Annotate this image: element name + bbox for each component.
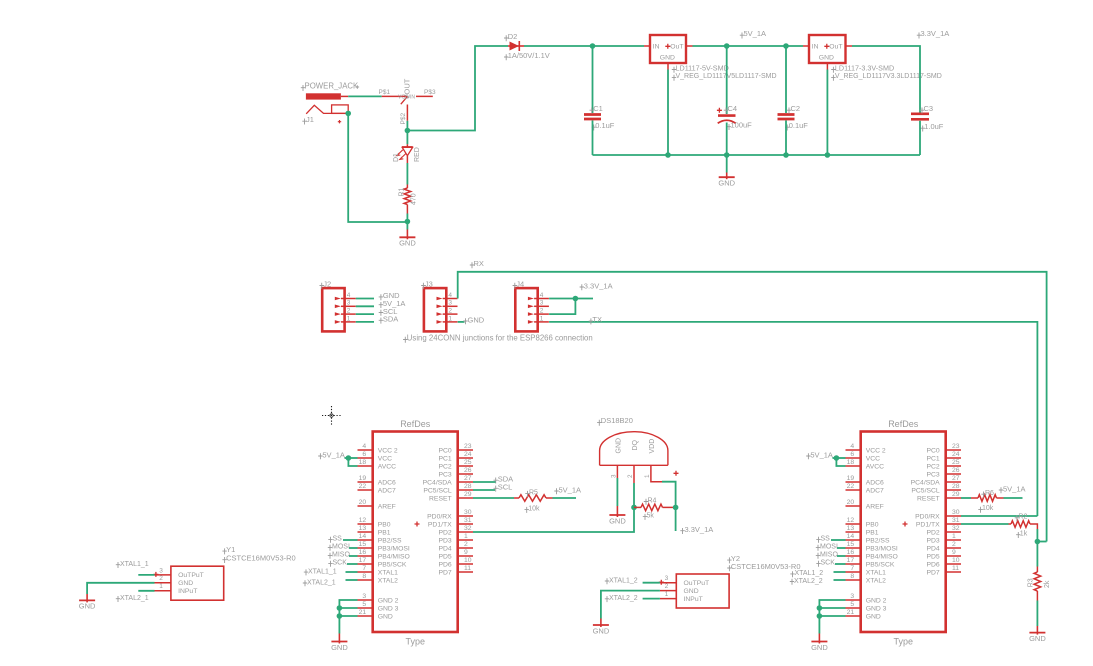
wire RESET to R6 xyxy=(961,497,971,499)
svg-text:2: 2 xyxy=(627,474,634,478)
svg-text:C1: C1 xyxy=(593,104,603,113)
wire 5V to VCC xyxy=(345,457,358,459)
svg-text:GND: GND xyxy=(819,55,834,62)
wire regulator2 OUT to C3 xyxy=(852,46,920,113)
svg-text:8: 8 xyxy=(850,573,854,580)
svg-text:OuTPuT: OuTPuT xyxy=(684,580,710,587)
svg-text:PC0: PC0 xyxy=(926,447,939,454)
svg-text:5: 5 xyxy=(362,601,366,608)
svg-text:PB2/SS: PB2/SS xyxy=(866,537,890,544)
junction 5V node xyxy=(724,43,730,49)
wire rail to ground xyxy=(726,155,728,173)
ground GND below R1 xyxy=(406,230,408,240)
svg-text:R2: R2 xyxy=(1018,514,1027,521)
svg-text:19: 19 xyxy=(359,475,367,482)
svg-text:PB3/MOSI: PB3/MOSI xyxy=(866,545,898,552)
wire J2 pin1 xyxy=(356,321,374,323)
svg-text:31: 31 xyxy=(464,517,472,524)
svg-text:32: 32 xyxy=(952,525,960,532)
svg-text:GND: GND xyxy=(609,516,626,525)
svg-text:MOSI: MOSI xyxy=(332,544,350,551)
svg-text:PD1/TX: PD1/TX xyxy=(916,521,940,528)
net label XTAL1_1 Y1 xyxy=(116,562,120,568)
svg-text:9: 9 xyxy=(952,549,956,556)
wire SCK U1 xyxy=(347,563,358,565)
svg-text:PC0: PC0 xyxy=(438,447,451,454)
capacitor C1 xyxy=(584,113,601,116)
svg-text:PB1: PB1 xyxy=(378,529,391,536)
svg-text:4: 4 xyxy=(362,443,366,450)
svg-text:RefDes: RefDes xyxy=(400,419,431,429)
svg-text:PD5: PD5 xyxy=(438,553,451,560)
wire Y1 pin3 xyxy=(138,574,154,576)
svg-text:INPuT: INPuT xyxy=(684,596,703,603)
svg-text:3.3V_1A: 3.3V_1A xyxy=(584,281,613,290)
svg-text:J2: J2 xyxy=(323,279,331,288)
wire MOSI U2 xyxy=(837,547,846,549)
svg-text:PC1: PC1 xyxy=(438,455,451,462)
svg-text:PD6: PD6 xyxy=(926,561,939,568)
net label SS U1 xyxy=(328,537,332,543)
svg-text:XTAL1_1: XTAL1_1 xyxy=(120,561,149,568)
LED D1 xyxy=(406,144,408,147)
svg-text:PB3/MOSI: PB3/MOSI xyxy=(378,545,410,552)
net label 3.3V_1A J4 xyxy=(580,284,584,290)
wire MISO U2 xyxy=(837,555,846,557)
wire R3 to GND xyxy=(1036,601,1038,627)
jack pin P$1 xyxy=(382,95,408,97)
svg-text:CSTCE16M0V53-R0: CSTCE16M0V53-R0 xyxy=(226,554,296,563)
svg-text:XTAL2_2: XTAL2_2 xyxy=(794,578,823,585)
connector J4 xyxy=(515,288,537,331)
svg-text:LD1117-3.3V-SMD: LD1117-3.3V-SMD xyxy=(835,63,894,72)
svg-text:PB1: PB1 xyxy=(866,529,879,536)
jack pin P$3 xyxy=(416,95,433,97)
svg-text:PC3: PC3 xyxy=(438,471,451,478)
wire to ground xyxy=(406,222,408,230)
svg-text:PD2: PD2 xyxy=(926,529,939,536)
svg-text:15: 15 xyxy=(359,541,367,548)
junction C2 top xyxy=(783,43,789,49)
wire J3 pin1 xyxy=(458,321,465,323)
svg-text:J3: J3 xyxy=(425,279,433,288)
svg-text:5V_1A: 5V_1A xyxy=(810,450,833,459)
svg-text:1: 1 xyxy=(644,474,651,478)
wire MOSI U1 xyxy=(349,547,358,549)
wire Y2 pin3 xyxy=(643,582,660,584)
svg-text:MISO: MISO xyxy=(332,552,350,559)
svg-text:GND: GND xyxy=(866,613,881,620)
svg-text:AVCC: AVCC xyxy=(866,463,884,470)
wire node to R3 xyxy=(1036,542,1038,567)
svg-text:P$1: P$1 xyxy=(379,89,391,96)
svg-text:P$3: P$3 xyxy=(424,89,436,96)
wire C1 bottom xyxy=(592,121,594,156)
svg-text:PD2: PD2 xyxy=(438,529,451,536)
svg-text:GND: GND xyxy=(468,315,485,324)
ground GND U2 xyxy=(818,634,820,644)
net label GND J2.4 xyxy=(379,294,383,300)
svg-text:ADC6: ADC6 xyxy=(866,479,884,486)
svg-text:3: 3 xyxy=(159,567,163,574)
wire PD2 to DS18B20 DQ xyxy=(473,510,634,533)
svg-text:9: 9 xyxy=(464,549,468,556)
svg-text:1k: 1k xyxy=(1020,531,1028,538)
wire J2 pin3 xyxy=(356,305,374,307)
junction J4 3.3V xyxy=(573,296,579,302)
net label MOSI U1 xyxy=(328,545,332,551)
svg-text:D1: D1 xyxy=(393,153,400,162)
svg-text:IN: IN xyxy=(653,44,660,51)
junction U1 GND pin5 xyxy=(337,605,343,611)
svg-text:INPuT: INPuT xyxy=(178,588,197,595)
svg-text:PC2: PC2 xyxy=(926,463,939,470)
wire C4 top xyxy=(726,46,728,114)
svg-text:15: 15 xyxy=(847,541,855,548)
svg-text:3: 3 xyxy=(665,575,669,582)
wire 5V to AVCC U2 xyxy=(836,458,845,466)
net label SCL J2.2 xyxy=(379,310,383,316)
net label SDA U1 xyxy=(494,478,498,484)
svg-text:3: 3 xyxy=(362,593,366,600)
svg-text:GND: GND xyxy=(684,588,699,595)
svg-text:ADC7: ADC7 xyxy=(378,487,396,494)
wire J2 pin2 xyxy=(356,313,374,315)
svg-text:20: 20 xyxy=(359,499,367,506)
svg-text:PC5/SCL: PC5/SCL xyxy=(423,487,452,494)
svg-text:31: 31 xyxy=(952,517,960,524)
svg-text:5V_1A: 5V_1A xyxy=(322,450,345,459)
svg-text:1.0uF: 1.0uF xyxy=(924,122,944,131)
wire SS U1 xyxy=(343,539,358,541)
wire PD0/RX to TX net xyxy=(961,515,1037,517)
net label 5V_1A U2 xyxy=(806,453,810,459)
voltage regulator LD1117-3.3V-SMD xyxy=(803,45,809,47)
net label XTAL2_1 U1 xyxy=(303,580,307,586)
wire junction right xyxy=(575,298,593,300)
svg-text:PD1/TX: PD1/TX xyxy=(428,521,452,528)
svg-text:DQ: DQ xyxy=(632,439,639,450)
svg-text:PD4: PD4 xyxy=(438,545,451,552)
svg-text:R3: R3 xyxy=(1028,578,1035,587)
svg-text:5: 5 xyxy=(850,601,854,608)
svg-text:PD5: PD5 xyxy=(926,553,939,560)
svg-text:13: 13 xyxy=(847,525,855,532)
jack pin P$2 xyxy=(406,105,408,121)
svg-text:SCK: SCK xyxy=(333,560,348,567)
svg-text:25: 25 xyxy=(464,459,472,466)
wire DS18B20 GND pin xyxy=(616,465,618,478)
wire Y1 GND xyxy=(87,583,154,594)
net label 5V_1A R6 xyxy=(999,487,1003,493)
svg-text:PB4/MISO: PB4/MISO xyxy=(378,553,410,560)
net label 5V_1A J2.3 xyxy=(379,302,383,308)
connector J3 xyxy=(424,288,446,331)
wire jack sleeve to GND node xyxy=(348,113,407,222)
svg-text:GND 3: GND 3 xyxy=(378,605,399,612)
wire VDD to 3.3V xyxy=(662,482,676,508)
resistor R1 470 xyxy=(406,185,408,189)
svg-text:LD1117-5V-SMD: LD1117-5V-SMD xyxy=(676,63,729,72)
wire node to regulator IN xyxy=(593,45,645,47)
net label XTAL2_2 U2 xyxy=(790,579,794,585)
ground GND U1 xyxy=(338,634,340,644)
svg-text:4: 4 xyxy=(448,292,452,299)
svg-text:IN: IN xyxy=(812,44,819,51)
net label SCK U1 xyxy=(328,561,332,567)
svg-text:7: 7 xyxy=(362,565,366,572)
svg-text:10k: 10k xyxy=(982,505,994,512)
svg-text:1: 1 xyxy=(464,533,468,540)
svg-text:DS18B20: DS18B20 xyxy=(601,416,633,425)
svg-text:GND: GND xyxy=(593,626,610,635)
svg-text:1: 1 xyxy=(540,315,544,322)
IC U2 microcontroller xyxy=(861,432,946,633)
wire DS18B20 DQ pin xyxy=(633,465,635,483)
ground GND Y2 xyxy=(600,619,602,628)
wire C2 top xyxy=(785,46,787,113)
svg-text:26: 26 xyxy=(952,467,960,474)
jack switch contact xyxy=(401,96,408,104)
svg-text:R4: R4 xyxy=(648,497,657,504)
wire U2 GND pins xyxy=(819,600,845,634)
svg-text:22: 22 xyxy=(359,483,367,490)
svg-text:2: 2 xyxy=(448,308,452,315)
svg-text:17: 17 xyxy=(847,557,855,564)
net label SCL U1 xyxy=(494,486,498,492)
wire SCK U2 xyxy=(835,563,846,565)
svg-text:5V_1A: 5V_1A xyxy=(744,29,767,38)
svg-text:1: 1 xyxy=(159,583,163,590)
svg-text:VCC/IN: VCC/IN xyxy=(398,94,415,100)
svg-text:SDA: SDA xyxy=(383,315,398,324)
svg-text:PD3: PD3 xyxy=(438,537,451,544)
svg-text:23: 23 xyxy=(952,443,960,450)
svg-text:1: 1 xyxy=(952,533,956,540)
wire Y1 pin1 xyxy=(138,590,154,592)
net label GND J3.1 xyxy=(463,318,467,324)
svg-text:3: 3 xyxy=(448,300,452,307)
wire R1 to GND node xyxy=(406,214,408,222)
svg-text:3: 3 xyxy=(611,474,618,478)
wire DS18B20 VDD pin xyxy=(651,465,662,481)
svg-text:VCC: VCC xyxy=(378,455,392,462)
junction 5V U2 xyxy=(834,455,840,461)
junction U1 GND pin21 xyxy=(337,613,343,619)
wire XTAL2 U1 xyxy=(346,579,358,581)
net label XTAL2_2 Y2 xyxy=(605,596,609,602)
svg-text:27: 27 xyxy=(952,475,960,482)
svg-text:30: 30 xyxy=(952,509,960,516)
net label 5V_1A U1 xyxy=(318,453,322,459)
wire 5V to VCC U2 xyxy=(833,457,846,459)
resistor R4 5k xyxy=(634,506,641,508)
resistor R2 1k xyxy=(1009,523,1012,525)
net label SCK U2 xyxy=(816,561,820,567)
crosshair cursor xyxy=(322,406,341,425)
net label SS U2 xyxy=(816,537,820,543)
svg-text:PC2: PC2 xyxy=(438,463,451,470)
wire PD1/TX to R2 xyxy=(961,523,1009,525)
svg-text:3: 3 xyxy=(540,300,544,307)
wire C2 bottom xyxy=(785,121,787,156)
svg-text:GND: GND xyxy=(178,580,193,587)
svg-text:PD0/RX: PD0/RX xyxy=(915,513,940,520)
svg-text:CSTCE16M0V53-R0: CSTCE16M0V53-R0 xyxy=(731,562,801,571)
svg-text:PD7: PD7 xyxy=(438,569,451,576)
junction U2 GND pin21 xyxy=(817,613,823,619)
capacitor C4 100uF xyxy=(718,114,736,117)
svg-text:5V_1A: 5V_1A xyxy=(559,485,582,494)
wire regulator GND to rail xyxy=(667,70,669,156)
net label XTAL1_1 U1 xyxy=(304,569,308,575)
svg-text:8: 8 xyxy=(362,573,366,580)
svg-text:100uF: 100uF xyxy=(731,121,753,130)
svg-text:2: 2 xyxy=(540,308,544,315)
svg-text:25: 25 xyxy=(952,459,960,466)
junction rail reg2 xyxy=(825,152,831,158)
svg-text:PD4: PD4 xyxy=(926,545,939,552)
wire ground rail xyxy=(593,154,921,156)
wire 5V node right xyxy=(727,45,786,47)
svg-text:PB0: PB0 xyxy=(378,521,391,528)
svg-text:J4: J4 xyxy=(516,279,524,288)
junction node VCC xyxy=(405,128,411,134)
svg-text:GND: GND xyxy=(616,438,623,454)
svg-text:PC3: PC3 xyxy=(926,471,939,478)
svg-text:18: 18 xyxy=(847,459,855,466)
svg-text:XTAL1: XTAL1 xyxy=(378,569,398,576)
wire regulator OUT to 5V node xyxy=(693,45,727,47)
net label XTAL1_2 Y2 xyxy=(605,578,609,584)
junction jack sleeve xyxy=(345,111,351,117)
wire XTAL1 U1 xyxy=(346,571,358,573)
net label MISO U2 xyxy=(816,553,820,559)
ground GND R3 xyxy=(1036,626,1038,635)
svg-text:XTAL1_2: XTAL1_2 xyxy=(795,570,824,577)
svg-text:J1: J1 xyxy=(306,115,314,124)
svg-text:Type: Type xyxy=(405,636,425,646)
svg-text:XTAL1_2: XTAL1_2 xyxy=(609,577,638,584)
svg-text:OuTPuT: OuTPuT xyxy=(178,572,204,579)
svg-text:C4: C4 xyxy=(728,104,738,113)
wire P$2 to node xyxy=(406,121,408,131)
svg-text:OuT: OuT xyxy=(829,44,842,51)
svg-text:13: 13 xyxy=(359,525,367,532)
svg-text:10k: 10k xyxy=(528,505,540,512)
svg-text:GND: GND xyxy=(399,239,416,248)
net label XTAL2_1 Y1 xyxy=(116,596,120,602)
svg-text:3.3V_1A: 3.3V_1A xyxy=(921,29,950,38)
svg-text:P$2: P$2 xyxy=(400,113,407,125)
svg-text:14: 14 xyxy=(847,533,855,540)
wire node to LED D1 xyxy=(406,133,408,144)
svg-text:14: 14 xyxy=(359,533,367,540)
wire J3 pin4 RX net xyxy=(458,272,1047,542)
wire regulator2 GND to rail xyxy=(826,70,828,156)
svg-text:2: 2 xyxy=(159,575,163,582)
wire C3 bottom xyxy=(919,121,921,155)
svg-text:AVCC: AVCC xyxy=(378,463,396,470)
crystal Y1 CSTCE16M0V53-R0 xyxy=(171,566,224,600)
resistor R3 2k xyxy=(1036,567,1038,573)
svg-text:MISO: MISO xyxy=(820,552,838,559)
svg-text:470: 470 xyxy=(411,193,418,205)
svg-text:12: 12 xyxy=(847,517,855,524)
svg-text:29: 29 xyxy=(464,491,472,498)
svg-text:PB5/SCK: PB5/SCK xyxy=(866,561,895,568)
junction rail C4 xyxy=(724,152,730,158)
svg-text:R5: R5 xyxy=(529,489,538,496)
wire SDA xyxy=(473,481,496,483)
svg-text:RX: RX xyxy=(474,259,484,268)
ground GND DS18B20 xyxy=(616,506,618,517)
wire 5V to AVCC xyxy=(348,458,357,466)
capacitor C2 xyxy=(778,113,795,116)
svg-text:16: 16 xyxy=(359,549,367,556)
svg-text:VDD: VDD xyxy=(649,439,656,454)
svg-text:18: 18 xyxy=(359,459,367,466)
svg-text:PB2/SS: PB2/SS xyxy=(378,537,402,544)
svg-text:0.1uF: 0.1uF xyxy=(595,121,615,130)
net label XTAL1_2 U2 xyxy=(790,571,794,577)
svg-text:V_REG_LD1117V3.3LD1117-SMD: V_REG_LD1117V3.3LD1117-SMD xyxy=(835,73,942,80)
svg-text:GND 2: GND 2 xyxy=(866,597,887,604)
svg-text:22: 22 xyxy=(847,483,855,490)
svg-text:11: 11 xyxy=(464,565,471,572)
svg-text:17: 17 xyxy=(359,557,367,564)
svg-text:4: 4 xyxy=(347,292,351,299)
wire R2 to divider node xyxy=(1036,529,1038,542)
wire D2 to C1 node xyxy=(524,45,593,47)
wire node to RX vertical xyxy=(1037,541,1046,543)
svg-text:1: 1 xyxy=(665,591,669,598)
ground GND power rail xyxy=(726,173,728,180)
svg-text:TX: TX xyxy=(592,315,602,324)
svg-text:XTAL1_1: XTAL1_1 xyxy=(308,568,337,575)
svg-text:6: 6 xyxy=(362,451,366,458)
svg-text:PD6: PD6 xyxy=(438,561,451,568)
wire R5 to 5V xyxy=(553,497,577,499)
svg-text:GND: GND xyxy=(378,613,393,620)
svg-text:AREF: AREF xyxy=(378,503,396,510)
svg-text:VCC 2: VCC 2 xyxy=(866,447,886,454)
svg-text:POWER_JACK: POWER_JACK xyxy=(305,82,360,91)
wire XTAL1 U2 xyxy=(834,571,846,573)
svg-text:C3: C3 xyxy=(924,104,934,113)
wire MISO U1 xyxy=(349,555,358,557)
svg-text:24: 24 xyxy=(952,451,960,458)
svg-text:SS: SS xyxy=(333,536,343,543)
svg-text:19: 19 xyxy=(847,475,855,482)
svg-text:6: 6 xyxy=(850,451,854,458)
svg-text:28: 28 xyxy=(464,483,472,490)
svg-text:PC4/SDA: PC4/SDA xyxy=(911,479,941,486)
capacitor C3 1.0uF xyxy=(911,112,929,115)
svg-text:VCC 2: VCC 2 xyxy=(378,447,398,454)
svg-text:29: 29 xyxy=(952,491,960,498)
svg-text:21: 21 xyxy=(359,609,367,616)
svg-text:RESET: RESET xyxy=(429,495,452,502)
svg-text:5V_1A: 5V_1A xyxy=(1003,484,1026,493)
wire C4 bottom xyxy=(726,123,728,156)
wire Y2 GND xyxy=(601,591,660,619)
svg-text:3.3V_1A: 3.3V_1A xyxy=(685,525,714,534)
svg-text:PD0/RX: PD0/RX xyxy=(427,513,452,520)
svg-text:26: 26 xyxy=(464,467,472,474)
svg-text:3: 3 xyxy=(347,300,351,307)
svg-text:10: 10 xyxy=(952,557,960,564)
